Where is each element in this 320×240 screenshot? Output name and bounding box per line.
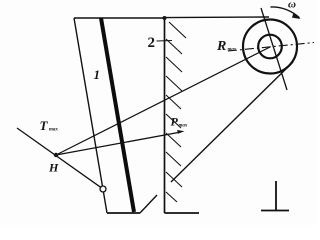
svg-text:max: max [228, 48, 237, 53]
svg-text:max: max [49, 128, 58, 133]
svg-text:R: R [216, 39, 226, 54]
svg-text:max: max [179, 124, 188, 129]
svg-text:2: 2 [148, 35, 156, 51]
svg-text:T: T [40, 118, 49, 133]
svg-text:P: P [171, 115, 179, 129]
svg-text:H: H [48, 161, 59, 175]
svg-text:ω: ω [288, 0, 296, 11]
svg-text:1: 1 [94, 67, 101, 82]
